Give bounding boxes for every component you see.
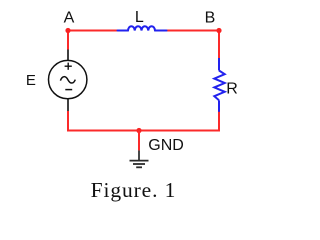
wire left-bottom red segment — [67, 111, 69, 132]
svg-text:R: R — [226, 81, 238, 98]
resistor R blue zigzag — [214, 58, 224, 112]
wire left black lead into source top — [67, 50, 69, 61]
wire top-left red segment A to inductor — [68, 30, 118, 32]
node A junction dot — [65, 28, 70, 33]
ground bars — [130, 161, 149, 168]
svg-text:E: E — [26, 72, 36, 89]
source plus sign — [65, 63, 72, 70]
ground red stem — [138, 131, 140, 151]
wire right red segment resistor to bottom — [218, 112, 220, 132]
source sine symbol — [60, 77, 75, 83]
svg-text:A: A — [64, 10, 75, 27]
wire right red segment B to resistor — [218, 31, 220, 59]
wire left red segment from A down — [67, 31, 69, 50]
voltage source U1 circle — [48, 60, 86, 98]
inductor L blue leads and coil — [118, 26, 167, 30]
svg-text:GND: GND — [148, 137, 184, 154]
ground black stem — [138, 150, 140, 160]
wire top-right red segment inductor to B — [166, 30, 219, 32]
svg-text:Figure. 1: Figure. 1 — [91, 178, 177, 202]
wire bottom red segment — [67, 130, 220, 132]
ground junction dot — [136, 128, 141, 133]
svg-text:B: B — [205, 10, 216, 27]
node B junction dot — [216, 28, 221, 33]
source minus sign — [65, 89, 72, 91]
wire black lead from source bottom — [67, 99, 69, 111]
svg-text:L: L — [135, 9, 144, 26]
